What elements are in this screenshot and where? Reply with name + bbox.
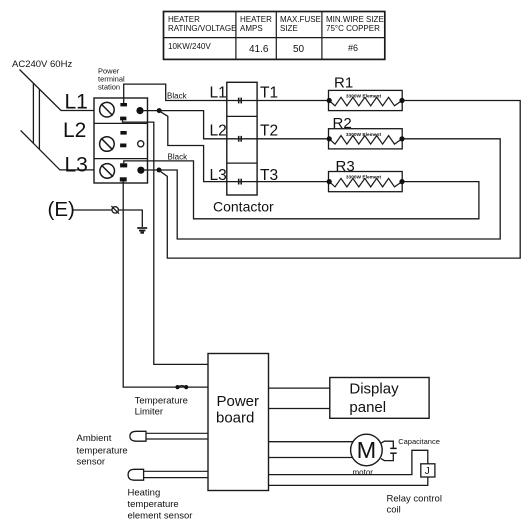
wire supply L1 diagonal xyxy=(20,70,95,111)
junction dot L1 branch xyxy=(157,108,162,113)
label temperature limiter xyxy=(135,396,188,418)
temperature limiter TL xyxy=(175,385,188,389)
svg-text:Power: Power xyxy=(217,393,260,410)
svg-text:Limiter: Limiter xyxy=(135,407,164,418)
svg-text:#6: #6 xyxy=(348,43,358,53)
svg-text:41.6: 41.6 xyxy=(249,44,269,55)
node open circle L2 terminal xyxy=(138,141,144,147)
capacitor C1 xyxy=(381,441,397,460)
table text xyxy=(168,15,384,55)
svg-text:Black: Black xyxy=(168,152,189,161)
wire black L3 to R3 return xyxy=(124,161,479,219)
svg-text:50: 50 xyxy=(293,44,305,55)
power terminal station label xyxy=(98,67,125,92)
svg-text:R2: R2 xyxy=(333,115,352,132)
wire power board to motor 2 xyxy=(269,457,353,459)
svg-text:HEATER: HEATER xyxy=(240,15,272,24)
wire L1 dot to contactor L2 xyxy=(140,111,241,139)
svg-text:M: M xyxy=(357,437,377,463)
screw terminal L1 xyxy=(100,102,115,117)
contactor contact pole 3 xyxy=(239,179,242,185)
relay control coil J xyxy=(421,464,435,477)
svg-text:R1: R1 xyxy=(334,75,353,92)
power board U1 xyxy=(208,354,269,491)
wire T3 to R3 xyxy=(241,181,329,183)
wire L1 junction to contactor L3 xyxy=(159,111,241,182)
contactor contact pole 1 xyxy=(239,98,242,104)
svg-text:AMPS: AMPS xyxy=(240,24,263,33)
wire black L1 to contactor L1 xyxy=(124,84,241,103)
svg-text:Capacitance: Capacitance xyxy=(398,437,440,446)
svg-text:L2: L2 xyxy=(63,119,86,142)
wire supply L2 vertical pair xyxy=(33,83,39,149)
svg-text:(E): (E) xyxy=(48,198,75,221)
svg-text:L3: L3 xyxy=(65,153,88,176)
svg-text:sensor: sensor xyxy=(77,457,106,468)
node dot L3 terminal xyxy=(137,167,144,174)
svg-text:R3: R3 xyxy=(336,158,355,175)
terminal contacts L3 xyxy=(120,163,127,181)
svg-text:temperature: temperature xyxy=(77,446,128,457)
screw terminal L2 xyxy=(100,137,115,152)
svg-text:MIN.WIRE SIZE: MIN.WIRE SIZE xyxy=(326,15,384,24)
svg-text:element sensor: element sensor xyxy=(128,511,193,522)
terminal contacts L1 xyxy=(120,103,127,120)
svg-text:L3: L3 xyxy=(210,167,227,184)
wire L1 bottom contact to power board xyxy=(123,120,209,364)
svg-text:10KW/240V: 10KW/240V xyxy=(168,42,211,51)
ground symbol xyxy=(137,228,147,233)
wire L3 junction to R1 return xyxy=(159,101,520,259)
svg-text:Contactor: Contactor xyxy=(213,199,274,215)
terminal contacts L2 xyxy=(120,131,127,147)
svg-text:Temperature: Temperature xyxy=(135,396,188,407)
svg-text:Display: Display xyxy=(349,381,399,398)
heater element R1 xyxy=(327,90,405,110)
svg-text:Ambient: Ambient xyxy=(77,433,112,444)
wire L3 dot to R2 return xyxy=(141,139,500,239)
wire power board to display 2 xyxy=(269,408,330,410)
svg-text:SIZE: SIZE xyxy=(280,24,298,33)
label ambient temperature sensor xyxy=(77,433,128,468)
svg-text:75°C COPPER: 75°C COPPER xyxy=(326,24,380,33)
display panel box xyxy=(330,378,429,419)
screw terminal L3 xyxy=(100,164,115,179)
wire relay J to power board xyxy=(269,477,428,485)
node dot L1 terminal xyxy=(136,107,143,114)
wire power board to relay J xyxy=(269,450,428,474)
wire earth xyxy=(74,210,143,227)
svg-text:AC240V 60Hz: AC240V 60Hz xyxy=(12,59,72,70)
svg-text:L1: L1 xyxy=(210,84,227,101)
wire L3 bottom contact to temperature limiter xyxy=(123,182,208,388)
svg-text:T2: T2 xyxy=(260,122,278,139)
svg-text:MAX.FUSE: MAX.FUSE xyxy=(280,15,321,24)
wire power board to display 1 xyxy=(269,387,330,389)
wire power board to motor 1 xyxy=(269,441,353,443)
label heating temperature element sensor xyxy=(128,488,193,522)
heater element R2 xyxy=(327,129,405,149)
label relay control coil xyxy=(387,494,442,516)
svg-text:temperature: temperature xyxy=(128,499,179,510)
svg-text:board: board xyxy=(216,410,254,427)
table: heater rating spec xyxy=(164,12,385,60)
svg-text:Black: Black xyxy=(167,91,188,100)
svg-text:motor: motor xyxy=(353,468,374,477)
svg-text:HEATER: HEATER xyxy=(168,15,200,24)
terminal block TB1 xyxy=(94,98,148,183)
svg-text:Heating: Heating xyxy=(128,488,161,499)
svg-text:coil: coil xyxy=(387,505,401,516)
svg-text:L2: L2 xyxy=(210,122,227,139)
heating temperature element sensor xyxy=(128,469,208,480)
svg-text:T1: T1 xyxy=(260,84,278,101)
wire T1 to R1 xyxy=(241,100,329,102)
contactor K1 box xyxy=(227,82,257,195)
motor M1 xyxy=(351,434,383,466)
wire T2 to R2 xyxy=(241,138,329,140)
wire supply L3 diagonal xyxy=(21,130,94,170)
svg-text:panel: panel xyxy=(349,399,386,416)
svg-text:station: station xyxy=(98,83,120,92)
svg-text:L1: L1 xyxy=(65,91,88,114)
ambient temperature sensor xyxy=(130,431,208,441)
heater element R3 xyxy=(327,172,405,192)
svg-text:RATING/VOLTAGE: RATING/VOLTAGE xyxy=(168,24,236,33)
label display panel xyxy=(349,381,399,417)
junction dot L3 branch xyxy=(157,168,162,173)
svg-text:J: J xyxy=(425,466,430,477)
label power board xyxy=(216,393,259,427)
contactor contact pole 2 xyxy=(239,136,242,142)
earth terminal circle xyxy=(111,206,119,214)
svg-text:Relay control: Relay control xyxy=(387,494,442,505)
